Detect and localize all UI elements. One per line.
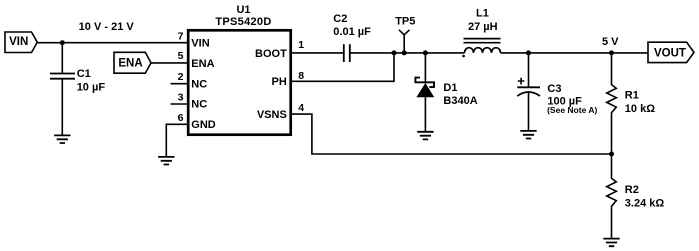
svg-text:ENA: ENA: [191, 58, 214, 70]
svg-text:0.01 µF: 0.01 µF: [333, 26, 371, 38]
svg-text:(See Note A): (See Note A): [547, 105, 597, 115]
svg-text:C1: C1: [77, 68, 91, 80]
svg-text:NC: NC: [191, 99, 207, 111]
junction node D1: [423, 50, 428, 55]
junction node TP5: [402, 50, 407, 55]
svg-text:8: 8: [298, 70, 304, 82]
svg-text:C3: C3: [547, 83, 561, 95]
svg-text:D1: D1: [443, 82, 457, 94]
ground (C1): [54, 135, 70, 143]
wire L1 to VOUT: [501, 52, 649, 54]
junction node R1/R2: [609, 152, 614, 157]
svg-text:10 V - 21 V: 10 V - 21 V: [79, 21, 135, 33]
svg-text:10 µF: 10 µF: [77, 82, 106, 94]
svg-text:L1: L1: [476, 8, 489, 20]
svg-text:7: 7: [178, 31, 184, 43]
op-amp U1 IC box: [188, 30, 291, 134]
inductor L1 core bars: [464, 39, 501, 43]
inductor L1 coil: [465, 48, 501, 53]
svg-text:VIN: VIN: [191, 38, 209, 50]
diode D1 schottky cathode bar: [415, 78, 434, 87]
svg-text:B340A: B340A: [443, 95, 477, 107]
svg-text:6: 6: [178, 112, 184, 124]
capacitor C2: [344, 44, 350, 62]
svg-text:4: 4: [298, 102, 304, 114]
svg-text:27 µH: 27 µH: [468, 21, 498, 33]
capacitor C3 wires: [528, 53, 530, 131]
svg-text:NC: NC: [191, 78, 207, 90]
svg-text:BOOT: BOOT: [255, 48, 287, 60]
wire PH pin8 riser: [291, 53, 394, 81]
svg-text:ENA: ENA: [118, 58, 142, 70]
svg-text:3: 3: [178, 92, 184, 104]
ground (R2): [603, 239, 619, 247]
svg-text:VIN: VIN: [9, 36, 28, 48]
test point TP5: [399, 30, 410, 53]
input tag ENA: [114, 52, 151, 73]
capacitor C1: [50, 74, 75, 79]
svg-text:1: 1: [298, 39, 304, 51]
wire ENA to pin5: [151, 62, 188, 64]
ground (IC GND): [158, 157, 174, 165]
capacitor C3 plates: [517, 86, 540, 88]
junction node VOUT/R1: [609, 50, 614, 55]
ground (D1): [417, 132, 433, 140]
svg-text:C2: C2: [333, 13, 347, 25]
svg-text:R1: R1: [625, 90, 639, 102]
svg-text:10 kΩ: 10 kΩ: [625, 103, 655, 115]
svg-text:TP5: TP5: [395, 16, 415, 28]
pin 3 NC stub: [171, 103, 189, 105]
svg-text:2: 2: [178, 71, 184, 83]
svg-text:5: 5: [178, 50, 184, 62]
svg-text:VSNS: VSNS: [257, 109, 287, 121]
resistor R2: [607, 154, 617, 239]
svg-text:U1: U1: [236, 4, 250, 16]
pin 2 NC stub: [171, 83, 189, 85]
svg-text:VOUT: VOUT: [654, 47, 686, 59]
wire PH node C2 to L1: [350, 52, 465, 54]
resistor R1: [607, 53, 617, 154]
svg-text:3.24 kΩ: 3.24 kΩ: [625, 198, 665, 210]
svg-text:5 V: 5 V: [602, 36, 619, 48]
wire VSNS pin4 feedback: [291, 114, 612, 154]
junction node PH riser: [392, 50, 397, 55]
wire VIN to pin7: [37, 42, 188, 44]
inductor phase dot: [462, 55, 465, 58]
plus sign C3: [518, 78, 525, 85]
input tag VIN: [5, 32, 37, 53]
svg-text:R2: R2: [625, 184, 639, 196]
ground (C3): [520, 131, 536, 139]
junction node C3: [526, 50, 531, 55]
wire C1 branch: [61, 43, 63, 136]
wire GND pin6: [166, 124, 188, 157]
wire BOOT pin1 to C2: [291, 52, 344, 54]
svg-text:PH: PH: [272, 76, 287, 88]
diode D1 triangle: [416, 83, 434, 97]
svg-text:TPS5420D: TPS5420D: [215, 16, 271, 28]
diode D1 wires: [424, 53, 426, 132]
junction node VIN/C1: [60, 40, 65, 45]
svg-text:GND: GND: [191, 119, 216, 131]
output tag VOUT: [648, 42, 694, 62]
